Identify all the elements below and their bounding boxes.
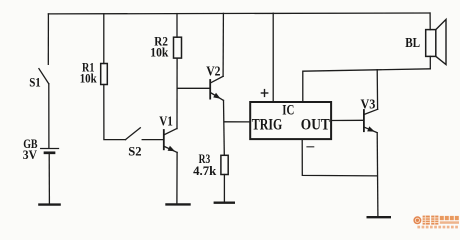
svg-text:3V: 3V <box>23 147 38 162</box>
wire node to V2 base <box>177 87 209 89</box>
wire S2 to V1 base <box>142 139 163 141</box>
ground battery <box>39 203 59 205</box>
svg-text:V1: V1 <box>159 114 173 129</box>
svg-text:V3: V3 <box>361 97 376 112</box>
wire V3 emitter to ground <box>376 133 379 216</box>
wire plus supply drop <box>272 13 274 101</box>
svg-text:10k: 10k <box>80 71 98 86</box>
IC U1 box <box>250 102 331 139</box>
svg-text:TRIG: TRIG <box>252 117 283 134</box>
wire OUT to V3 base <box>332 119 364 121</box>
wire V3 collector up <box>376 70 378 110</box>
wire speaker to return <box>429 56 431 68</box>
wire S1 top drop <box>47 14 49 65</box>
wire R2 top drop <box>176 14 178 38</box>
resistor R2 <box>174 37 182 58</box>
watermark caption row <box>417 226 458 229</box>
resistor R1 <box>101 64 108 85</box>
wire V1 emitter to ground <box>176 152 178 203</box>
watermark logo circle <box>413 216 421 224</box>
svg-text:S1: S1 <box>29 74 41 89</box>
wire V2 emitter to R3 <box>223 100 226 155</box>
wire battery to ground <box>48 154 50 203</box>
speaker BL <box>426 19 446 64</box>
wire IC minus to V3 emitter <box>302 140 377 176</box>
ground V1 <box>167 203 190 205</box>
wire top supply rail <box>48 12 430 15</box>
wire IC top to speaker return <box>303 69 431 102</box>
watermark main text <box>423 216 439 225</box>
battery GB negative plate <box>45 151 54 154</box>
svg-text:IC: IC <box>282 103 294 119</box>
ground V3 <box>368 216 390 218</box>
wire R2 to V1 collector <box>176 58 178 129</box>
wire R3 to ground <box>223 175 225 202</box>
wire to TRIG input <box>224 121 250 123</box>
resistor R3 <box>221 155 228 174</box>
svg-text:S2: S2 <box>128 144 141 159</box>
svg-text:10k: 10k <box>150 44 169 59</box>
switch S1 <box>39 69 49 84</box>
label minus <box>307 146 314 148</box>
battery GB positive plate <box>41 148 59 150</box>
ground R3 <box>215 201 234 203</box>
watermark side text <box>440 216 459 224</box>
label plus <box>261 90 267 97</box>
transistor V3 <box>364 109 378 132</box>
svg-text:BL: BL <box>405 36 420 51</box>
wire speaker drop <box>429 13 431 30</box>
wire R1 to S2 <box>104 85 126 140</box>
wire V2 collector to rail <box>222 13 224 76</box>
svg-text:V2: V2 <box>206 65 220 80</box>
transistor V1 <box>164 129 177 153</box>
wire S1 to battery <box>48 84 50 148</box>
svg-text:OUT: OUT <box>301 117 330 134</box>
transistor V2 <box>210 76 223 100</box>
svg-text:4.7k: 4.7k <box>193 163 217 178</box>
wire R1 top drop <box>103 14 105 64</box>
switch S2 <box>126 128 141 140</box>
